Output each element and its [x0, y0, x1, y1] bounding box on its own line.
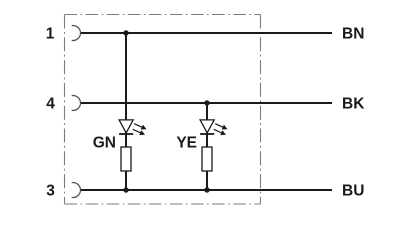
LED D1 light arrow upper [134, 124, 146, 130]
wire branch LED1 vertical [125, 33, 127, 190]
LED D2 light arrow lower [214, 129, 226, 135]
svg-text:BK: BK [342, 96, 365, 113]
svg-text:YE: YE [176, 135, 197, 152]
LED D1 (GN) triangle [119, 120, 133, 133]
svg-text:BN: BN [342, 26, 364, 43]
svg-text:3: 3 [46, 183, 55, 200]
wire pin3 to BU [81, 189, 333, 191]
svg-text:4: 4 [46, 96, 55, 113]
connector housing dash-dot outline right edge [260, 15, 262, 205]
connector housing dash-dot outline bottom edge [65, 203, 261, 205]
node junction on wire3 at branch2 [204, 187, 209, 192]
LED D1 light arrow lower [133, 129, 145, 135]
pin 3 contact [72, 183, 81, 198]
pin 4 contact [72, 96, 81, 111]
wire pin1 to BN [81, 32, 333, 34]
svg-text:GN: GN [93, 135, 116, 152]
svg-text:BU: BU [342, 183, 364, 200]
LED D2 light arrow upper [215, 124, 227, 130]
wire branch LED2 vertical [206, 103, 208, 190]
node junction on wire1 at branch1 [123, 30, 128, 35]
wire pin4 to BK [81, 102, 333, 104]
svg-text:1: 1 [46, 26, 55, 43]
node junction on wire3 at branch1 [123, 187, 128, 192]
resistor R2 [202, 147, 212, 171]
resistor R1 [121, 147, 131, 171]
connector housing dash-dot outline top edge [65, 14, 261, 16]
LED D1 cathode bar [119, 133, 133, 135]
node junction on wire2 at branch2 [204, 100, 209, 105]
pin 1 contact [72, 26, 81, 41]
LED D2 (YE) triangle [200, 120, 214, 133]
connector housing dash-dot outline left edge [64, 15, 66, 205]
LED D2 cathode bar [200, 133, 214, 135]
